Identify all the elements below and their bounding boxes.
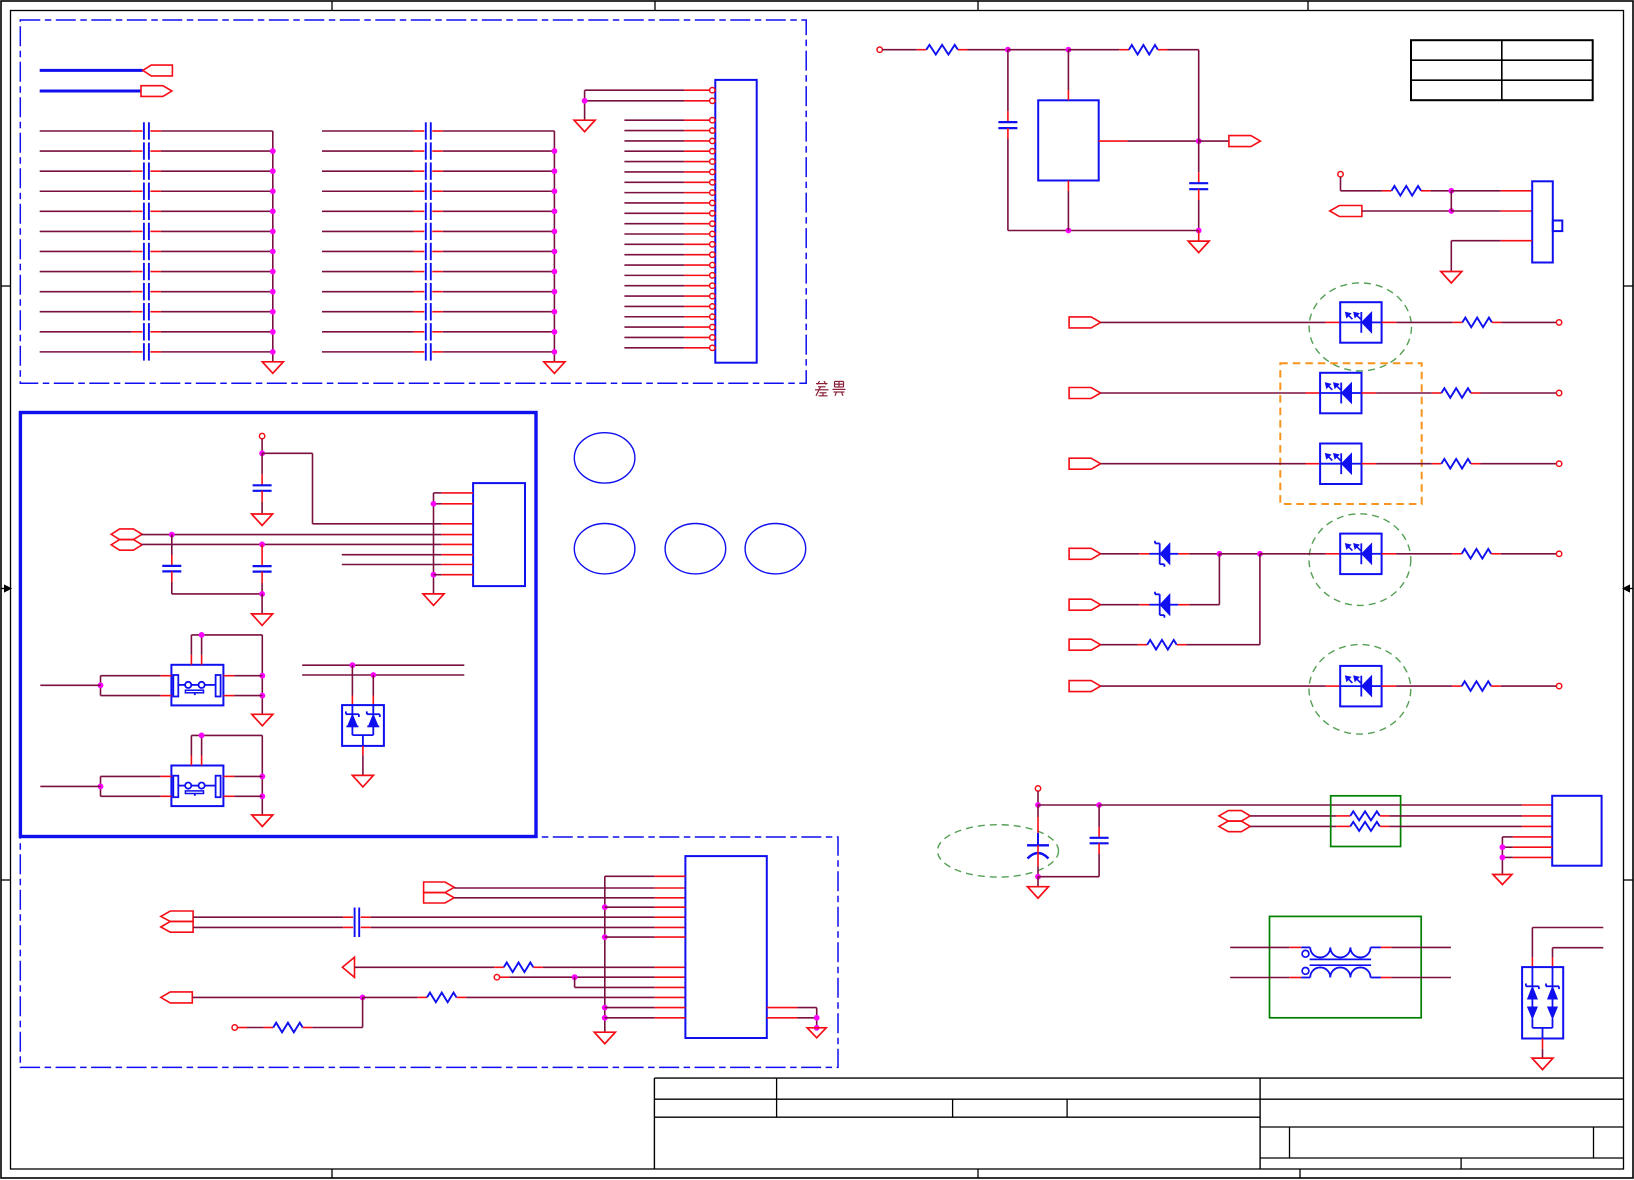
resistor R5	[1441, 388, 1471, 398]
wire gnd rail	[1008, 230, 1199, 232]
port P4 (left)	[1330, 206, 1362, 217]
wire P10 to R8	[1101, 644, 1148, 646]
component U2 body	[1532, 181, 1562, 262]
wire U4 to R5	[1362, 392, 1442, 394]
ground G5	[423, 594, 444, 606]
node R	[350, 662, 356, 668]
terminal T1	[877, 47, 882, 52]
wire J3 pin7	[605, 936, 686, 938]
node L	[259, 542, 265, 548]
wire J3 right pinB	[767, 1017, 817, 1019]
wire J3 pin4	[605, 906, 686, 908]
wire node K to C6	[171, 535, 173, 566]
ellipse spare 4	[745, 524, 806, 574]
wire R1 to node	[958, 49, 1008, 51]
wire P12a to J2 pin4	[141, 534, 473, 536]
wire J2 pin2	[434, 503, 474, 505]
J1 pin 1	[585, 88, 715, 93]
node J	[259, 450, 265, 456]
cap bank 2 common net wire	[552, 131, 558, 362]
resistor R9	[1462, 681, 1492, 691]
wire U1 vin	[1067, 50, 1069, 101]
node B	[1066, 47, 1072, 53]
ground G9	[594, 1032, 615, 1044]
wire R3 to node F	[1421, 190, 1451, 192]
node X	[1035, 802, 1041, 808]
wire U2 pin3	[1451, 241, 1532, 272]
wire D1 to node H	[1178, 553, 1219, 555]
frame tick top 1	[331, 1, 333, 11]
ground G12	[1493, 875, 1512, 885]
wire T1 to R1	[882, 49, 926, 51]
wire node C to port	[1199, 140, 1229, 142]
resistor R8	[1147, 640, 1177, 650]
J1 pins 3-25	[624, 118, 715, 351]
wire R2 to corner	[1158, 49, 1199, 51]
wire node F-G	[1450, 191, 1452, 211]
wire T11 down	[1037, 791, 1039, 805]
wire U8 pin5	[1502, 846, 1552, 848]
transformer TX1	[1301, 947, 1381, 977]
wire J3 pin1	[605, 875, 686, 877]
dash-dot region box bottom-left	[20, 837, 838, 1067]
wire C3 branch upper	[1007, 50, 1009, 122]
resistor R4	[1462, 318, 1492, 328]
wire SW1 input	[40, 684, 100, 686]
terminal T11	[1035, 786, 1040, 791]
capacitor C5	[253, 485, 272, 491]
resistor R2	[1129, 45, 1158, 55]
dash-dot region box top-left	[20, 20, 806, 383]
frame arrow right	[1623, 585, 1633, 592]
node D	[1196, 228, 1202, 234]
wire node U to R11	[363, 996, 427, 998]
wire net A to D4	[1532, 928, 1603, 968]
wire P14a to C8	[193, 916, 353, 918]
wire node J to J2 pin3	[262, 453, 473, 524]
ground G13	[1532, 1058, 1553, 1070]
frame tick right 2	[1624, 879, 1634, 881]
J1 pin 2	[585, 98, 715, 103]
frame tick bottom 3	[1299, 1169, 1301, 1178]
terminal T10	[232, 1025, 237, 1030]
node T	[572, 974, 578, 980]
node O	[98, 682, 104, 688]
port P13 (double right)	[424, 882, 455, 903]
wire P13a to J3 pin2	[454, 887, 685, 889]
wire P6 to U4	[1101, 392, 1321, 394]
wire U3 to R4	[1382, 321, 1463, 323]
terminal T2	[1338, 172, 1343, 177]
zener D2	[1150, 592, 1179, 618]
node V	[814, 1015, 820, 1021]
terminal T4	[1556, 390, 1561, 395]
wire J3 gnd net	[602, 876, 608, 1032]
wire P4 to node G	[1362, 210, 1451, 212]
wire U7 to R9	[1382, 685, 1462, 687]
wire node Z to ground	[1037, 877, 1039, 887]
node Y	[1096, 802, 1102, 808]
wire node Y to C11	[1098, 805, 1100, 838]
resistor R3	[1392, 186, 1422, 196]
frame tick left 2	[1, 879, 11, 881]
wire J2 pin7	[342, 564, 473, 566]
wire R7 to T6	[1491, 553, 1556, 555]
ellipse spare 3	[665, 524, 726, 574]
wire TX1 out bottom	[1381, 977, 1451, 979]
resistor RN1b	[1350, 822, 1380, 831]
node A	[1005, 47, 1011, 53]
wire net B to D4	[1553, 948, 1604, 967]
wire node T to J3 pin10	[575, 977, 686, 987]
wire SW1 right net	[259, 635, 265, 714]
transformer box (green)	[1270, 916, 1422, 1017]
wire U1 vout	[1099, 140, 1199, 142]
revision table	[1411, 40, 1593, 100]
wire SW2 pin3	[223, 775, 262, 777]
node C	[1196, 138, 1202, 144]
capacitor C11	[1090, 838, 1109, 844]
resistor R1	[926, 45, 958, 55]
terminal T7	[1556, 683, 1561, 688]
frame arrow left	[1, 585, 11, 592]
port P11 (right)	[1069, 681, 1101, 692]
wire SW2 top loop	[191, 735, 262, 755]
switch SW1	[161, 655, 224, 706]
wire U6 to R7	[1382, 553, 1462, 555]
wire SW2 pin4	[223, 795, 262, 797]
ground G11	[1028, 887, 1049, 899]
frame tick bottom 2	[977, 1169, 979, 1178]
capacitor C6	[162, 566, 181, 572]
wire P17b to RN1	[1250, 825, 1350, 827]
wire C9 to J3 pin6	[361, 926, 686, 928]
wire RN1b to U8 pin3	[1380, 825, 1552, 827]
wire P11 to U7	[1101, 685, 1341, 687]
wire U1 gnd	[1067, 181, 1069, 231]
wire T2 corner	[1341, 177, 1392, 191]
capacitor C4	[1189, 183, 1208, 189]
cap bank 1 common net wire	[270, 131, 276, 362]
resistor R7	[1462, 549, 1492, 559]
wire node S to D3	[372, 675, 374, 705]
wire C10 to node Z	[1037, 845, 1039, 876]
port P5 (right)	[1069, 317, 1101, 328]
port P9 (right)	[1069, 599, 1101, 610]
port P3 (right)	[1229, 136, 1261, 147]
ground cap bank 2	[544, 362, 565, 374]
wire P14b to C9	[193, 926, 353, 928]
resistor R10	[504, 963, 534, 973]
wire right branch lower	[1198, 189, 1200, 230]
wire J1 gnd	[582, 90, 588, 119]
ellipse spare 1	[574, 433, 635, 483]
wire node H to node I	[1219, 553, 1260, 555]
wire C11 to node Z	[1038, 843, 1099, 876]
connector J1 body	[715, 80, 756, 363]
wire node B to R2	[1068, 49, 1129, 51]
ellipse marker row A	[1309, 283, 1411, 371]
termination box (green)	[1331, 796, 1401, 847]
connector J3 body	[685, 856, 766, 1038]
node W	[814, 1025, 820, 1031]
wire node R to D3	[351, 665, 353, 705]
wire P17a to RN1	[1250, 815, 1350, 817]
wire node X to C10	[1037, 805, 1039, 833]
port P10 (right)	[1069, 639, 1101, 650]
wire R4 to T3	[1492, 321, 1557, 323]
frame tick top 3	[977, 1, 979, 11]
wire R5 to T4	[1471, 392, 1557, 394]
port P12 (double hex)	[111, 529, 142, 550]
capacitor bank C1 rows	[40, 122, 273, 360]
wire T8 down	[261, 439, 263, 454]
resistor RN1a	[1350, 811, 1380, 820]
wire P7 to U5	[1101, 463, 1321, 465]
capacitor C8 C9 plates	[355, 908, 360, 938]
wire TX1 in top	[1230, 946, 1301, 948]
highlight box (orange dashed)	[1280, 363, 1421, 504]
wire P9 to D2	[1101, 604, 1150, 606]
opto U7	[1340, 666, 1381, 707]
port P7 (right)	[1069, 458, 1101, 469]
ground G4	[252, 614, 273, 626]
wire SW1 top loop	[191, 635, 262, 655]
wire P12b to J2 pin5	[141, 543, 473, 545]
switch SW2	[161, 756, 224, 807]
wire R11 to J3 pin11	[457, 996, 686, 998]
dual zener D3	[342, 705, 384, 746]
port P6 (right)	[1069, 388, 1101, 399]
node S	[370, 672, 376, 678]
wire node A to node B	[1008, 49, 1069, 51]
node I	[1257, 551, 1263, 557]
wire J2 pin1	[434, 492, 474, 494]
wire C6 to node M	[172, 571, 262, 594]
wire SW2 left loop	[101, 776, 161, 796]
ground G6	[252, 714, 273, 726]
wire J2 pin8	[434, 574, 474, 576]
wire C8 to J3 pin5	[361, 916, 686, 918]
wire R6 to T5	[1471, 463, 1557, 465]
resistor R6	[1441, 459, 1471, 469]
wire U8 pin4	[1502, 836, 1552, 838]
capacitor C10 (polarized)	[1027, 833, 1049, 859]
terminal T6	[1556, 551, 1561, 556]
port P16 (left)	[161, 992, 193, 1003]
node Q	[98, 784, 104, 790]
wire J3 right pinA	[767, 1008, 817, 1028]
terminal T3	[1556, 320, 1561, 325]
ground G1	[1188, 241, 1209, 253]
zener D1	[1150, 541, 1179, 567]
ground G7	[252, 815, 273, 827]
regulator U1 body	[1038, 100, 1099, 180]
wire C7 down	[261, 572, 263, 594]
title block	[654, 1078, 1623, 1169]
wire node X to node Y	[1038, 804, 1099, 806]
wire P13b to J3 pin3	[454, 897, 685, 899]
wire J2 gnd net	[431, 493, 437, 594]
wire node J to C5	[261, 453, 263, 485]
wire SW2 right net	[259, 735, 265, 815]
bus wire 2	[40, 90, 141, 93]
ellipse marker row G	[1309, 645, 1411, 735]
wire bus line 2	[302, 674, 464, 676]
node K	[169, 532, 175, 538]
frame tick top 2	[654, 1, 656, 11]
quad TVS D4	[1522, 967, 1563, 1038]
frame tick top 4	[1307, 1, 1309, 11]
wire R10 to J3 pin8	[533, 966, 685, 968]
ellipse marker bulk cap	[938, 825, 1059, 877]
capacitor C7	[253, 566, 272, 572]
wire U8 gnd net	[1500, 837, 1506, 875]
frame tick right 1	[1624, 285, 1634, 287]
wire P5 to U3	[1101, 321, 1341, 323]
wire T10 to R12	[237, 1027, 273, 1029]
wire C3 branch lower	[1007, 128, 1009, 230]
wire R12 to node U	[303, 997, 363, 1027]
wire node Y to U8 pin1	[1099, 804, 1552, 806]
wire node L to C7	[261, 544, 263, 566]
node H	[1217, 551, 1223, 557]
wire D4 to ground	[1542, 1039, 1544, 1059]
resistor R11	[427, 993, 457, 1003]
ground J1	[574, 120, 595, 132]
opto U4	[1320, 373, 1361, 414]
capacitor C3	[998, 122, 1017, 128]
ground G10	[807, 1028, 826, 1038]
wire right branch upper	[1198, 50, 1200, 184]
wire TX1 out top	[1381, 946, 1451, 948]
node G	[1448, 208, 1454, 214]
port P1 (left)	[143, 65, 173, 76]
wire C5 to ground	[261, 491, 263, 514]
ground G8	[352, 775, 373, 787]
wire node F to U2 pin1	[1451, 190, 1532, 192]
wire SW1 pin4	[223, 695, 262, 697]
ground G2	[1441, 272, 1462, 284]
region label text	[815, 381, 846, 396]
port P8 (right)	[1069, 548, 1101, 559]
wire J3 pin13	[605, 1017, 686, 1019]
port P15 (triangle)	[342, 957, 354, 977]
wire R9 to T7	[1491, 685, 1556, 687]
port P2 (right)	[141, 86, 172, 97]
ellipse spare 2	[574, 524, 635, 574]
node F	[1448, 188, 1454, 194]
resistor R12	[273, 1023, 303, 1033]
wire U5 to R6	[1362, 463, 1442, 465]
node Z	[1035, 874, 1041, 880]
terminal T5	[1556, 461, 1561, 466]
wire P15 to R10	[355, 966, 504, 968]
ground cap bank 1	[262, 362, 283, 374]
node E	[1066, 228, 1072, 234]
wire SW1 left loop	[101, 676, 161, 696]
port P14 (double left)	[161, 911, 193, 932]
opto U5	[1320, 444, 1361, 485]
connector U8 body	[1552, 796, 1601, 866]
opto U3	[1340, 302, 1381, 343]
wire node M to ground	[261, 594, 263, 614]
node P	[199, 733, 205, 739]
wire P16 to node U	[192, 996, 362, 998]
connector J2 body	[473, 483, 525, 586]
wire TX1 in bottom	[1230, 977, 1301, 979]
ellipse marker row D	[1309, 514, 1411, 606]
wire T9 to J3 pin9	[500, 976, 686, 978]
wire P8 to D1	[1101, 553, 1150, 555]
node N	[199, 632, 205, 638]
terminal T8	[259, 433, 264, 438]
frame tick left 1	[1, 285, 11, 287]
wire to ground G1	[1198, 231, 1200, 242]
wire SW2 input	[40, 785, 100, 787]
capacitor bank C2 rows	[322, 122, 554, 360]
bus wire 1	[40, 69, 143, 72]
node U	[360, 995, 366, 1001]
wire SW1 pin3	[223, 675, 262, 677]
wire node G to U2 pin2	[1451, 210, 1532, 212]
node M	[259, 591, 265, 597]
wire D2 to node H	[1178, 554, 1219, 605]
wire J3 pin12	[605, 1007, 686, 1009]
wire R8 to node I	[1177, 554, 1260, 645]
wire U8 pin6	[1502, 856, 1552, 858]
opto U6	[1340, 534, 1381, 575]
group box (blue)	[20, 413, 536, 837]
wire bus line 1	[302, 664, 464, 666]
wire node I to U6	[1260, 553, 1340, 555]
wire J2 pin6	[342, 554, 473, 556]
frame tick bottom 1	[331, 1169, 333, 1178]
ground G3	[252, 514, 273, 526]
wire RN1a to U8 pin2	[1380, 815, 1552, 817]
terminal T9	[494, 975, 499, 980]
port P17 (double hex)	[1219, 811, 1250, 832]
wire D3 to ground	[362, 746, 364, 776]
